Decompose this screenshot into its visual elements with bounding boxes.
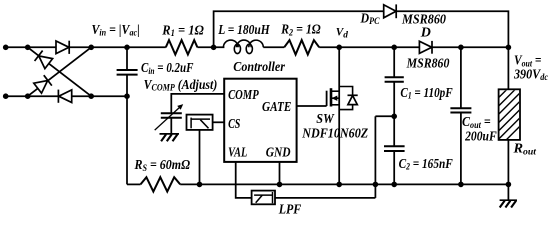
wire main line R1 to L: [197, 46, 224, 48]
wire mid-node horizontal to feedback riser: [375, 115, 394, 117]
capacitor Cin: [117, 70, 138, 75]
svg-text:CS: CS: [228, 117, 240, 132]
node rail takeoff: [211, 45, 217, 51]
wire bottom AC input line: [6, 95, 127, 97]
capacitor Cout: [450, 108, 471, 112]
node C1 C2 midpoint: [391, 114, 397, 120]
wire feedback riser vertical: [374, 116, 376, 184]
wire MOSFET drain-source bus: [338, 47, 340, 184]
wire varcap lower stem: [170, 118, 172, 134]
LPF box: [252, 191, 275, 205]
svg-text:RS = 60mΩ: RS = 60mΩ: [134, 158, 191, 174]
wire CS box bottom stub: [199, 130, 201, 185]
svg-text:Cin = 0.2uF: Cin = 0.2uF: [141, 61, 194, 77]
node Cin top: [124, 45, 130, 51]
svg-text:Cout =: Cout =: [462, 115, 491, 131]
svg-text:GATE: GATE: [262, 100, 291, 115]
svg-text:390Vdc: 390Vdc: [513, 67, 549, 83]
wire top bypass rail with DPC: [214, 11, 509, 47]
node Vout: [506, 45, 512, 51]
svg-text:200uF: 200uF: [464, 130, 497, 145]
ground below variable capacitor: [160, 134, 180, 141]
resistor R2: [284, 40, 319, 54]
wire GND pin down to rail: [279, 162, 281, 185]
wire LPF output horizontal: [275, 197, 375, 199]
wire C2 lower lead: [393, 151, 395, 184]
node Vd: [336, 45, 342, 51]
svg-text:L = 180uH: L = 180uH: [217, 23, 270, 38]
wire Cout upper lead: [460, 47, 462, 108]
wire COMP pin wire: [171, 94, 224, 113]
node dots: [3, 45, 511, 188]
node C1 top: [391, 45, 397, 51]
node Cout rail junction: [458, 182, 464, 188]
svg-text:Vin = |Vac|: Vin = |Vac|: [92, 23, 140, 39]
node C2 rail junction: [391, 182, 397, 188]
diode bridge diagonal A diode: [35, 51, 53, 69]
node Cin bottom: [124, 93, 130, 99]
svg-text:GND: GND: [266, 145, 291, 160]
wire bridge diagonal B: [28, 47, 91, 96]
wire GATE wire: [297, 105, 327, 107]
node bridge top right: [88, 45, 94, 51]
svg-text:MSR860: MSR860: [406, 57, 450, 72]
wire Cout lower lead: [460, 113, 462, 185]
wire CS box to CS pin: [213, 121, 225, 123]
node AC bottom terminal: [3, 93, 9, 99]
svg-text:Rout: Rout: [512, 142, 536, 158]
wire VAL to LPF: [236, 162, 252, 198]
diode bridge diagonal B diode: [34, 75, 52, 93]
diode bridge top diode: [56, 41, 69, 54]
capacitor C2: [384, 146, 405, 151]
svg-text:VCOMP (Adjust): VCOMP (Adjust): [144, 78, 218, 94]
resistor R1: [166, 40, 198, 54]
wire Rout lower lead: [507, 140, 509, 185]
node source rail junction: [336, 182, 342, 188]
transistor SW NDF10N60Z MOSFET: [327, 88, 340, 106]
capacitor C1: [385, 77, 404, 81]
svg-text:SW: SW: [316, 112, 335, 127]
controller box U1: [224, 79, 296, 162]
svg-text:Vd: Vd: [336, 27, 348, 41]
wire Rout upper lead: [507, 47, 509, 89]
wire Cin branch lower down to bottom rail: [126, 75, 128, 185]
wire C1-C2 middle lead: [393, 82, 395, 147]
wire LPF output riser: [374, 184, 376, 198]
diode DPC MSR860: [384, 4, 397, 18]
variable capacitor VCOMP adjust: [161, 113, 182, 118]
node Cout top: [458, 45, 464, 51]
svg-text:Controller: Controller: [233, 60, 285, 75]
diode D MSR860: [419, 41, 432, 54]
node bridge top left: [25, 45, 31, 51]
wire top AC input line: [6, 46, 166, 48]
wire main line R2 to Vout node: [319, 46, 508, 48]
svg-text:D: D: [420, 25, 431, 40]
diode MOSFET body diode: [339, 87, 358, 110]
svg-text:VAL: VAL: [228, 145, 247, 160]
inductor L: [223, 40, 263, 54]
svg-text:COMP: COMP: [228, 88, 259, 103]
wire C1 upper lead: [393, 47, 395, 77]
node bridge bottom left: [25, 93, 31, 99]
node GND rail junction: [277, 182, 283, 188]
resistor RS: [141, 177, 181, 191]
filter box on CS input: [187, 115, 213, 130]
wire bottom rail: [180, 183, 508, 185]
wire bottom rail left lead: [127, 183, 141, 185]
variable capacitor arrow: [155, 104, 184, 130]
svg-text:C1 = 110pF: C1 = 110pF: [400, 86, 453, 102]
resistor Rout hatched load: [492, 58, 530, 154]
node CS rail junction: [197, 182, 203, 188]
wire bridge diagonal A: [28, 47, 91, 96]
svg-text:R2 = 1Ω: R2 = 1Ω: [280, 23, 321, 39]
node ground rail junction: [506, 182, 512, 188]
svg-text:R1 = 1Ω: R1 = 1Ω: [161, 23, 204, 39]
wire Cin branch upper: [126, 47, 128, 70]
svg-text:DPC: DPC: [360, 11, 380, 27]
ground bottom right: [500, 200, 517, 207]
svg-text:LPF: LPF: [278, 202, 302, 216]
node bridge bottom right: [88, 93, 94, 99]
wire main line L to R2: [263, 46, 284, 48]
node feedback rail junction: [373, 182, 379, 188]
svg-text:NDF10N60Z: NDF10N60Z: [301, 126, 368, 141]
node AC top terminal: [3, 45, 9, 51]
svg-text:C2 = 165nF: C2 = 165nF: [399, 157, 454, 173]
diode bridge bottom diode: [58, 90, 71, 103]
wire ground stem right: [507, 184, 509, 200]
